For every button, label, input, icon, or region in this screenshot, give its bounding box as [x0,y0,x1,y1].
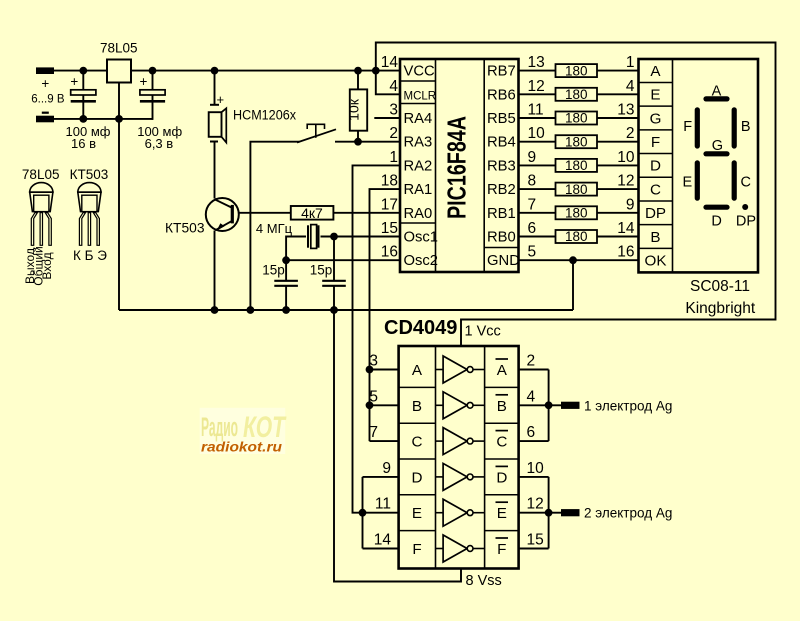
inverter gate 4 [436,463,485,490]
svg-text:E: E [497,505,507,522]
U1 right pin name RB0 [487,230,516,246]
svg-text:180: 180 [565,229,588,244]
segment A [706,96,727,101]
U3 input pin number 7 [369,424,378,441]
wire to electrode 1 [549,404,561,406]
segment G [706,151,727,156]
segment label D [711,214,721,230]
svg-text:11: 11 [528,102,544,119]
U3 output pin number 10 [527,460,545,477]
push button S1 [297,124,336,142]
U1 pin number 15 [381,220,398,237]
wire GND drop to ground rail [572,260,574,310]
U1 pin number 6 [528,220,537,237]
pinout label Obschiy [31,246,45,286]
display pin cell G [650,110,662,127]
wire CD4049 input pin stub row 4 [363,476,399,478]
wire 10k resistor leads [357,71,359,142]
U1 left pin name Osc1 [404,230,439,246]
wire RA4 stub [374,117,400,119]
svg-text:9: 9 [626,196,635,213]
U3 output cell B inverted [496,395,509,415]
pinout label Vhod [40,252,54,279]
svg-text:8 Vss: 8 Vss [466,573,502,589]
display pin number 13 [617,102,634,119]
segment label C [740,174,750,190]
svg-text:DP: DP [645,205,666,222]
regulator label 78L05 [100,41,138,56]
wire CD4049 output stub row 6 [519,548,549,550]
segment label B [741,119,751,135]
U3 output cell E inverted [496,502,509,522]
transistor Q1 KT503 [206,198,239,231]
inverter gate 6 [436,535,485,562]
wire GND to display OK [519,259,639,261]
U1 pin number 2 [389,125,398,142]
U1 right pin name RB7 [487,64,516,80]
resistor R7 180 ohm [556,206,598,219]
junction dot 9 [330,233,338,241]
R4 value label 180 [565,134,588,149]
wire Osc1 net [286,237,400,281]
junction dot 10 [282,256,290,264]
buzzer BZ1 HCM1206x [209,92,227,143]
R7 value label 180 [565,206,588,221]
pinout label K B E [73,248,107,263]
resistor R3 180 ohm [556,112,598,125]
svg-text:4: 4 [389,78,398,95]
svg-text:6: 6 [527,424,536,441]
U1 pin number 14 [381,54,399,71]
junction dot 1 [79,67,87,75]
svg-text:10: 10 [527,460,545,477]
wire button to RA3 [335,141,400,143]
display maker label Kingbright [685,300,755,317]
wire CD4049 input pin stub row 3 [370,440,399,442]
display pin number 16 [617,244,634,261]
svg-text:5: 5 [528,244,537,261]
svg-text:G: G [712,138,723,154]
U3 output pin number 4 [527,388,536,405]
wire RB1 row to display [519,212,639,214]
C3 value label 15p [262,263,285,278]
svg-text:КТ503: КТ503 [165,220,205,236]
battery plus terminal [36,67,54,74]
U1 left pin name RA1 [404,182,433,198]
svg-text:4 МГц: 4 МГц [256,221,293,236]
junction dot 12 [247,306,255,314]
display pin cell A [650,63,661,80]
U1 pin number 17 [381,196,398,213]
wire C3 bottom lead [285,286,287,310]
U1 pin number 10 [528,125,546,142]
svg-text:КТ503: КТ503 [70,167,109,182]
U3 pin label 1 Vcc [465,324,501,340]
pinout label Vyhod [23,248,37,284]
svg-text:6...9 В: 6...9 В [31,94,65,106]
wire output group 2 vertical [548,477,550,549]
display pin cell B [650,229,660,246]
svg-text:16 в: 16 в [71,136,96,151]
svg-text:2 электрод Ag: 2 электрод Ag [584,506,672,521]
battery minus sign [42,112,49,114]
svg-text:К Б Э: К Б Э [73,248,107,263]
segment D [706,205,727,210]
U3 input cell E [412,505,422,522]
svg-text:Вход: Вход [40,252,54,279]
svg-text:16: 16 [617,244,634,261]
display pin number 14 [617,220,635,237]
svg-text:6,3 в: 6,3 в [145,136,174,151]
wire RB0 row to display [519,236,639,238]
wire C1 leads [82,71,84,119]
svg-text:radiokot.ru: radiokot.ru [201,439,282,455]
C4 value label 15p [310,263,333,278]
U3 output pin number 6 [527,424,536,441]
R9 value label 10k [346,98,362,121]
capacitor C4 15p [322,281,346,286]
svg-text:15: 15 [527,532,544,549]
svg-text:B: B [412,398,422,415]
svg-text:1: 1 [626,54,635,71]
junction dot 13 [282,306,290,314]
wire RB7 row to display [519,70,639,72]
U1 right pin name RB5 [487,111,516,127]
U3 output cell F inverted [496,538,509,558]
svg-text:D: D [496,469,507,486]
svg-text:RB1: RB1 [487,206,516,222]
svg-text:C: C [740,174,750,190]
display pin number 10 [617,149,635,166]
U1 left pin name VCC [404,64,436,80]
svg-text:A: A [412,362,423,379]
segment label F [683,119,692,135]
inverter gate 5 [436,499,485,526]
U1 pin number 18 [381,173,398,190]
U3 input pin number 14 [374,532,392,549]
segment DP dot [742,204,748,210]
resistor R6 180 ohm [556,183,598,196]
svg-text:7: 7 [528,196,537,213]
display pin number 4 [626,78,635,95]
segment B [732,110,737,146]
U3 output pin number 15 [527,532,544,549]
svg-text:RA4: RA4 [404,111,433,127]
svg-text:D: D [412,469,423,486]
svg-text:10к: 10к [346,98,362,121]
svg-text:10: 10 [528,125,546,142]
svg-text:Kingbright: Kingbright [685,300,755,317]
svg-text:+: + [70,74,78,89]
resistor R9 10k [350,89,367,130]
svg-text:10: 10 [617,149,635,166]
wire C2 leads [152,71,154,120]
wire CD4049 output stub row 3 [519,440,549,442]
U3 pin label 8 Vss [466,573,502,589]
svg-text:C: C [650,181,661,198]
wire RB4 row to display [519,141,639,143]
svg-text:14: 14 [381,54,399,71]
junction dot 2 [149,67,157,75]
crystal X1 4MHz [306,224,321,249]
wire CD4049 output stub row 1 [519,369,549,371]
junction dot 7 [115,115,123,123]
svg-text:RA0: RA0 [404,206,433,222]
U3 input cell D [412,469,423,486]
svg-text:180: 180 [565,158,588,173]
display pin number 12 [617,173,634,190]
svg-text:13: 13 [528,54,545,71]
junction dot 4 [354,67,362,75]
U1 pin number 1 [389,149,398,166]
svg-text:F: F [683,119,692,135]
package 78L05 title [22,167,60,182]
svg-text:Osc1: Osc1 [404,230,439,246]
R1 value label 180 [565,63,588,78]
svg-text:4: 4 [626,78,635,95]
svg-text:A: A [712,84,722,100]
junction dot 8 [354,138,362,146]
svg-text:180: 180 [565,206,588,221]
svg-text:B: B [497,398,507,415]
wire output group 1 vertical [548,370,550,442]
U1 pin number 3 [389,102,398,119]
U1 right pin name RB4 [487,135,516,151]
svg-text:Osc2: Osc2 [404,253,439,269]
electrode 2 terminal [561,509,580,516]
svg-text:B: B [650,229,660,246]
transistor label KT503 [165,220,205,236]
segment F [695,110,700,146]
display pin cell F [651,134,660,151]
display HG1 body [639,59,759,272]
wire buzzer top lead [214,71,216,105]
inverter chip U3 CD4049 body [399,346,519,569]
svg-text:F: F [651,134,660,151]
junction dot 17 [366,401,374,409]
svg-text:1 электрод Ag: 1 электрод Ag [584,398,672,413]
svg-text:180: 180 [565,111,588,126]
svg-text:MCLR: MCLR [404,90,437,102]
wire CD4049 input group D/E/F vertical [362,477,364,549]
svg-text:4к7: 4к7 [301,205,323,221]
wire RB6 row to display [519,93,639,95]
U1 pin number 8 [528,173,537,190]
svg-text:+: + [217,92,225,107]
svg-text:6: 6 [528,220,537,237]
U3 input cell B [412,398,422,415]
U3 input cell A [412,362,423,379]
segment label DP [736,214,756,230]
svg-text:1: 1 [389,149,398,166]
inverter gate 2 [436,392,485,419]
svg-text:E: E [412,505,422,522]
U1 left pin name RA4 [404,111,433,127]
package drawing 78L05 TO-92 [30,183,53,246]
U1 right pin name RB2 [487,182,516,198]
wire CD4049 input pin stub row 1 [370,369,399,371]
svg-text:D: D [711,214,721,230]
wire buzzer to collector [214,142,216,199]
C2 value label [137,124,182,151]
U1 left pin name RA3 [404,135,433,151]
wire Osc2 net [286,259,400,261]
U1 part number label [441,116,471,219]
svg-text:G: G [650,110,662,127]
junction dot 19 [545,401,553,409]
U1 pin number 13 [528,54,545,71]
U3 output cell C inverted [496,431,509,451]
wire RB5 row to display [519,117,639,119]
wire CD4049 input pin stub row 5 [363,512,399,514]
svg-text:E: E [682,174,692,190]
resistor R4 180 ohm [556,135,598,148]
svg-text:12: 12 [617,173,634,190]
battery voltage label 6...9 V [31,94,65,106]
wire CD4049 input pin stub row 6 [363,548,399,550]
R6 value label 180 [565,182,588,197]
svg-text:13: 13 [617,102,634,119]
wire battery minus rail [54,118,153,120]
electrode 2 label [584,506,672,521]
U3 input pin number 3 [369,353,378,370]
package KT503 title [70,167,109,182]
R2 value label 180 [565,87,588,102]
wire button to ground [250,142,299,310]
svg-text:+: + [140,74,148,89]
svg-text:14: 14 [617,220,635,237]
C1 value label [66,124,111,151]
svg-text:Радио: Радио [201,412,238,442]
resistor R10 4k7 [291,206,334,220]
svg-text:2: 2 [527,353,536,370]
svg-text:F: F [497,541,506,558]
display pin number 9 [626,196,635,213]
U1 pin number 11 [528,102,544,119]
regulator U2 78L05 [107,60,131,83]
U1 left pin name RA0 [404,206,433,222]
U1 pin number 16 [381,244,398,261]
resistor R2 180 ohm [556,88,598,101]
inverter gate 3 [436,428,485,455]
buzzer label HCM1206x [233,108,296,123]
svg-text:A: A [650,63,661,80]
wire pin14 VCC stub [376,70,400,72]
wire CD4049 output stub row 4 [519,476,549,478]
U3 output pin number 2 [527,353,536,370]
svg-text:7: 7 [369,424,378,441]
op chip U1 PIC16F84A body [400,59,519,272]
crystal label 4 MHz [256,221,293,236]
R10 value label 4k7 [301,205,323,221]
svg-text:RA3: RA3 [404,135,433,151]
U3 input cell F [412,541,421,558]
svg-text:RB6: RB6 [487,87,516,103]
svg-text:PIC16F84A: PIC16F84A [441,116,471,219]
svg-text:180: 180 [565,87,588,102]
svg-text:RB7: RB7 [487,64,516,80]
U3 output cell A inverted [496,359,509,379]
U3 input pin number 9 [382,460,391,477]
R5 value label 180 [565,158,588,173]
U3 input cell C [412,434,423,451]
junction dot 3 [211,67,219,75]
svg-text:RB4: RB4 [487,135,516,151]
wire CD4049 output stub row 2 [519,404,549,406]
svg-text:180: 180 [565,63,588,78]
svg-text:15р: 15р [262,263,285,278]
watermark radiokot logo [200,408,287,455]
U1 left pin name MCLR [404,90,437,102]
display pin cell C [650,181,661,198]
inverter gate 1 [436,356,485,383]
wire RA1 to CD4049 inputs A/B/C [370,189,401,441]
wire MCLR to VCC and supply loop to CD4049 Vcc [376,43,776,347]
U1 pin number 9 [528,149,537,166]
R3 value label 180 [565,111,588,126]
U3 input pin number 5 [369,388,378,405]
wire RA2 to CD4049 inputs D/E/F [353,165,401,512]
resistor R8 180 ohm [556,230,598,243]
svg-text:F: F [412,541,421,558]
svg-text:RB0: RB0 [487,230,516,246]
display pin number 1 [626,54,635,71]
svg-text:HCM1206x: HCM1206x [233,108,296,123]
U1 pin number 4 [389,78,398,95]
wire C4 top lead [333,237,335,281]
capacitor C2 100uF 6.3V [140,74,166,103]
svg-text:180: 180 [565,182,588,197]
display pin cell DP [645,205,666,222]
wire regulator ground lead [118,83,120,311]
display pin number 2 [626,125,635,142]
battery minus terminal [36,116,54,123]
segment label A [712,84,722,100]
junction dot 5 [372,67,380,75]
svg-text:9: 9 [382,460,391,477]
svg-text:4: 4 [527,388,536,405]
U1 left pin name Osc2 [404,253,439,269]
U1 pin number 12 [528,78,545,95]
svg-text:180: 180 [565,134,588,149]
U1 right pin name RB6 [487,87,516,103]
wire top +5V rail [54,70,376,72]
U3 part number CD4049 [384,317,457,339]
wire RB3 row to display [519,164,639,166]
electrode 1 label [584,398,672,413]
svg-text:RA2: RA2 [404,158,433,174]
svg-text:2: 2 [389,125,398,142]
segment label G [712,138,723,154]
segment E [695,163,700,198]
junction dot 14 [330,306,338,314]
wire CD4049 output stub row 5 [519,512,549,514]
U1 right pin name RB1 [487,206,516,222]
svg-text:15р: 15р [310,263,333,278]
svg-text:11: 11 [375,496,391,513]
svg-text:12: 12 [528,78,545,95]
svg-text:B: B [741,119,751,135]
junction dot 6 [79,115,87,123]
resistor R1 180 ohm [556,64,598,77]
svg-text:2: 2 [626,125,635,142]
wire emitter to ground [214,231,216,311]
svg-text:78L05: 78L05 [22,167,60,182]
svg-text:VCC: VCC [404,64,436,80]
junction dot 20 [545,509,553,517]
capacitor C3 15p [274,281,298,286]
svg-text:SC08-11: SC08-11 [690,278,750,295]
